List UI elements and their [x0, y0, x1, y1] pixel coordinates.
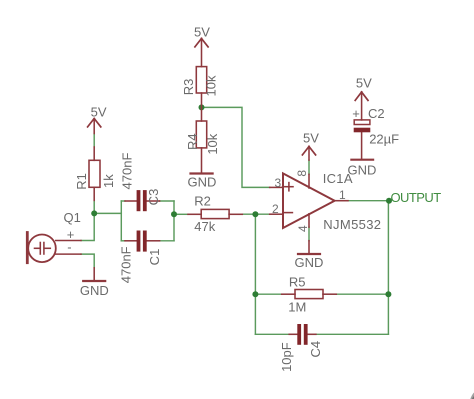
svg-text:C2: C2	[368, 106, 385, 121]
svg-text:5V: 5V	[356, 75, 372, 90]
svg-text:C3: C3	[146, 189, 161, 206]
svg-text:1k: 1k	[101, 174, 116, 188]
svg-text:GND: GND	[187, 174, 216, 189]
svg-text:22µF: 22µF	[369, 131, 399, 146]
svg-text:1M: 1M	[288, 300, 306, 315]
svg-text:47k: 47k	[194, 219, 215, 234]
svg-text:IC1A: IC1A	[323, 171, 353, 186]
svg-text:R4: R4	[185, 133, 200, 150]
svg-text:Q1: Q1	[64, 210, 81, 225]
svg-text:470nF: 470nF	[119, 246, 134, 283]
svg-text:OUTPUT: OUTPUT	[391, 190, 442, 205]
svg-text:470nF: 470nF	[119, 153, 134, 190]
svg-text:8: 8	[295, 170, 309, 177]
svg-text:GND: GND	[80, 283, 109, 298]
svg-text:1: 1	[339, 188, 346, 202]
svg-text:5V: 5V	[91, 104, 107, 119]
svg-text:C1: C1	[147, 249, 162, 266]
svg-text:R2: R2	[194, 194, 211, 209]
svg-text:GND: GND	[295, 255, 324, 270]
svg-text:R3: R3	[181, 79, 196, 96]
svg-text:C4: C4	[308, 341, 323, 358]
svg-text:3: 3	[275, 176, 282, 190]
svg-text:NJM5532: NJM5532	[323, 217, 381, 232]
svg-text:10k: 10k	[205, 133, 220, 154]
svg-text:4: 4	[296, 225, 310, 232]
svg-text:+: +	[352, 106, 360, 121]
svg-text:-: -	[67, 239, 71, 254]
svg-text:2: 2	[272, 202, 279, 216]
svg-text:10k: 10k	[204, 75, 219, 96]
svg-text:5V: 5V	[194, 24, 210, 39]
svg-text:10pF: 10pF	[279, 342, 294, 372]
svg-text:5V: 5V	[303, 131, 319, 146]
svg-text:R5: R5	[289, 275, 306, 290]
svg-text:R1: R1	[74, 173, 89, 190]
